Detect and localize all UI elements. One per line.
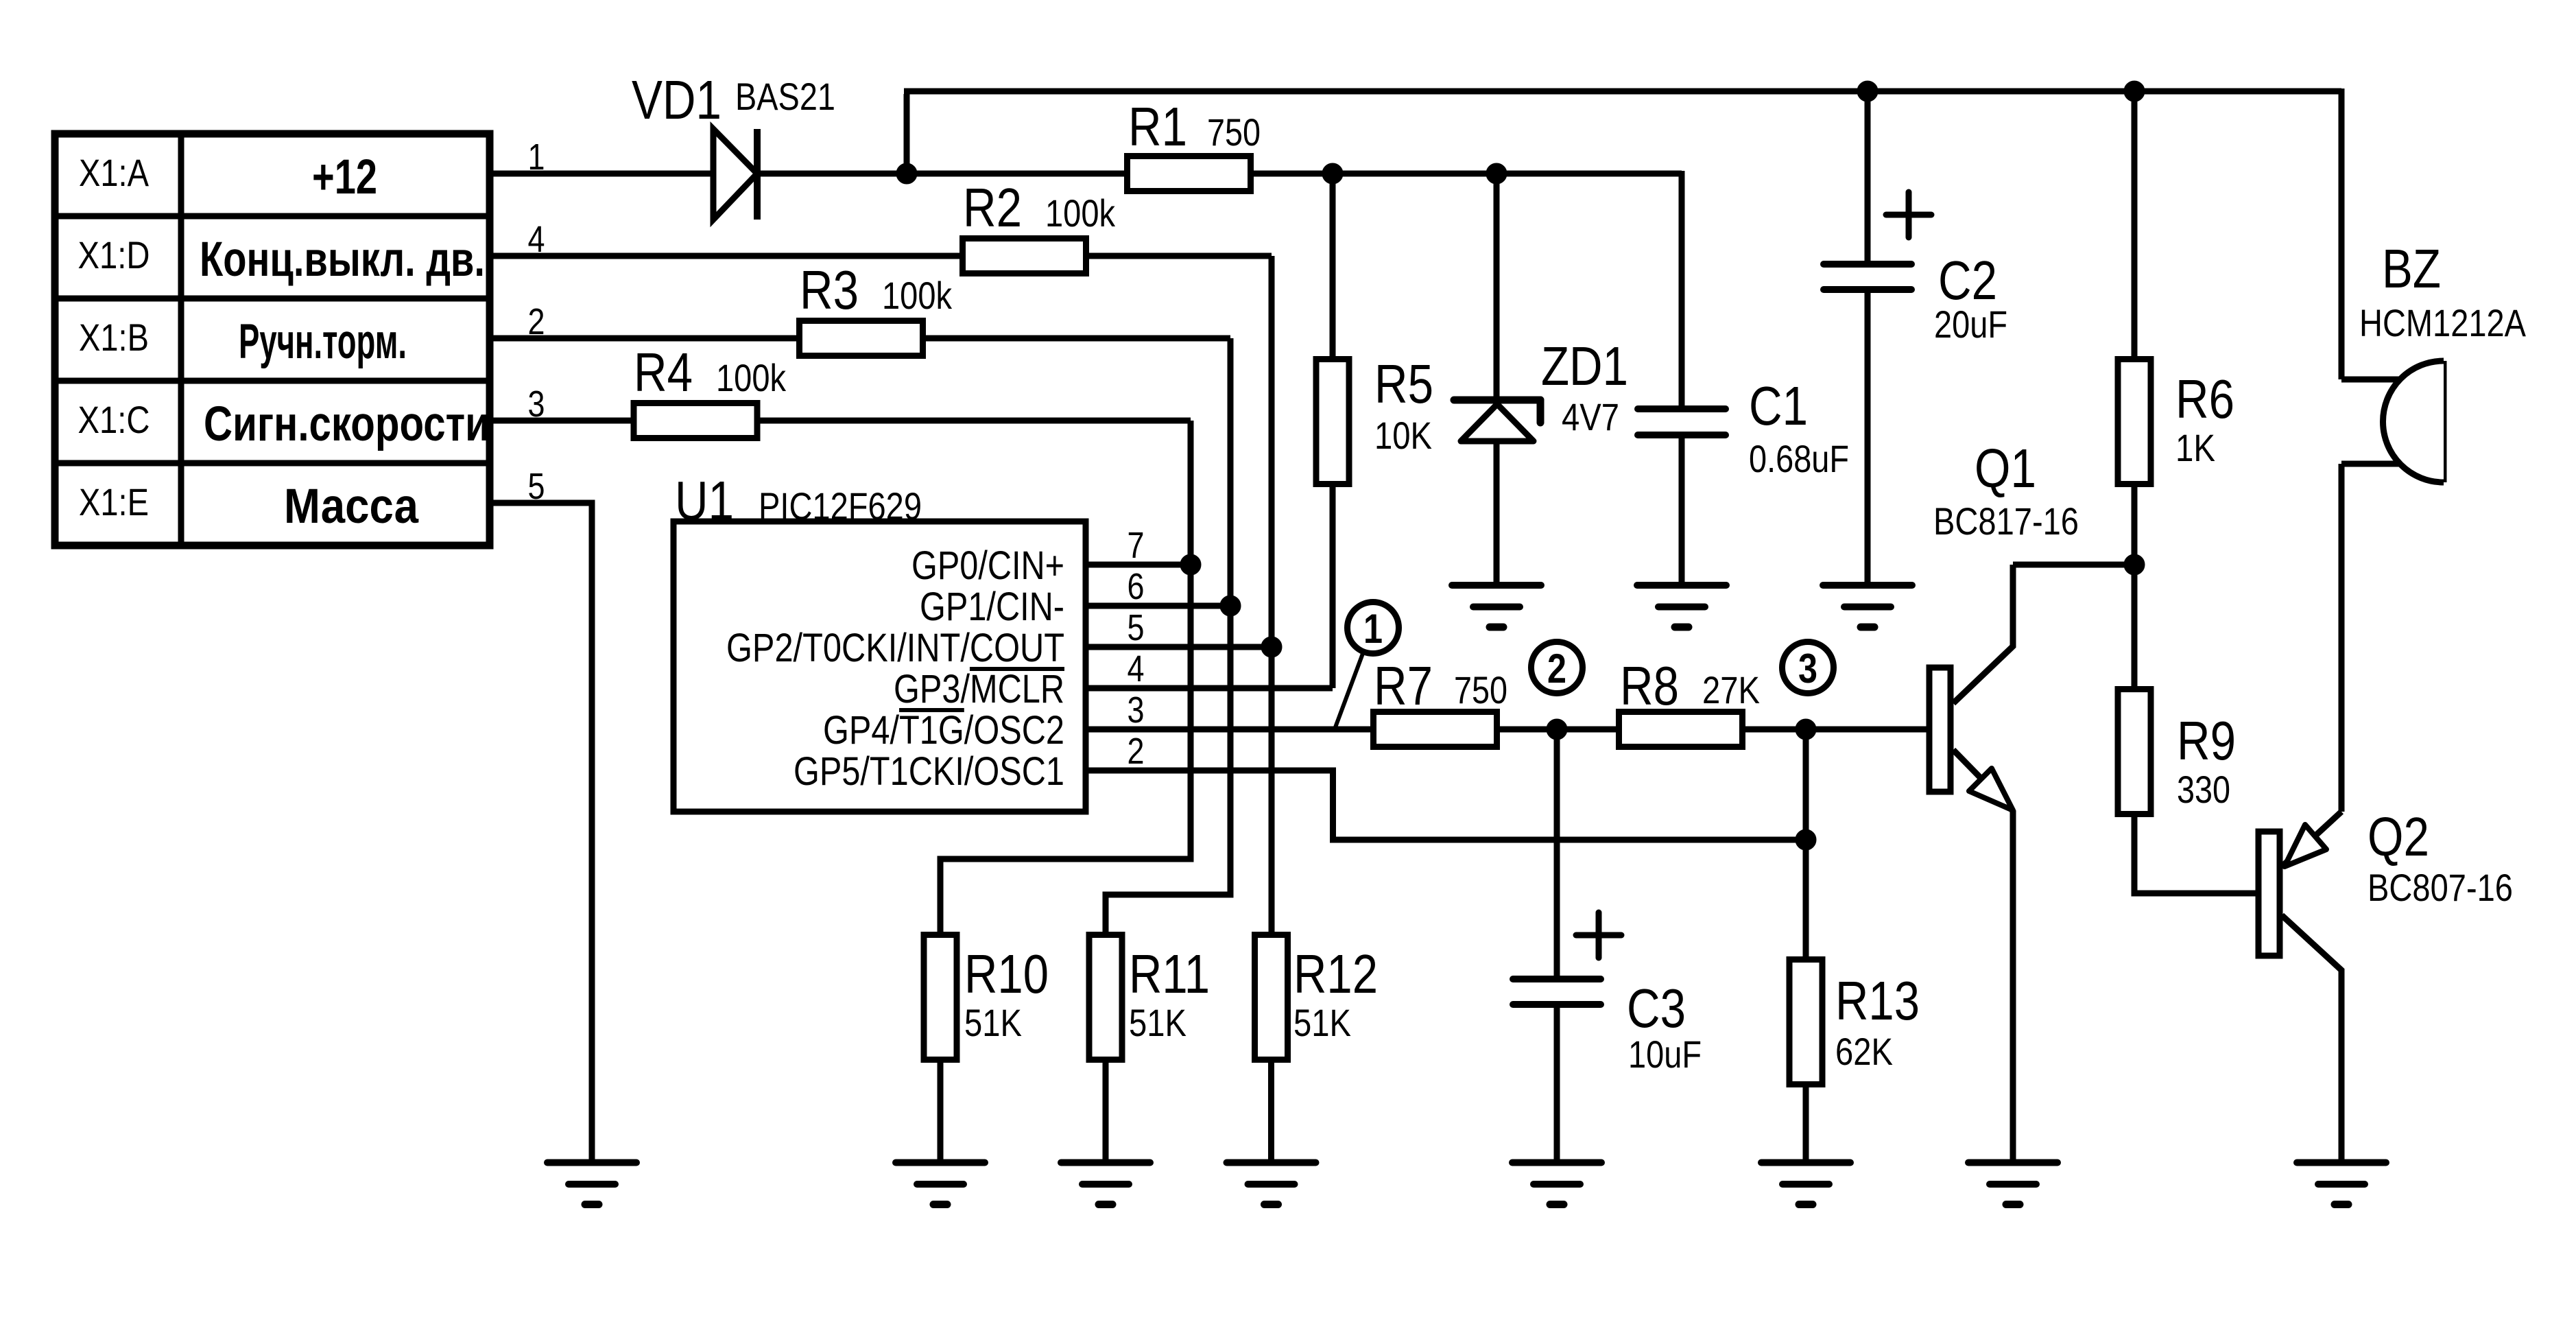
svg-text:62K: 62K [1835, 1030, 1893, 1073]
wire R11 bottom [1103, 1060, 1109, 1163]
wire R10 bottom [938, 1060, 944, 1163]
resistor R5 [1316, 360, 1349, 484]
svg-text:X1:C: X1:C [78, 398, 150, 441]
svg-text:R6: R6 [2175, 368, 2234, 429]
wire R6 top lead [2132, 91, 2138, 359]
wire top rail [904, 89, 2341, 95]
wire R5 bottom lead [1330, 484, 1336, 688]
svg-text:3: 3 [1798, 646, 1817, 692]
wire R5 top lead [1330, 174, 1336, 359]
svg-text:10uF: 10uF [1628, 1033, 1702, 1076]
svg-text:R13: R13 [1835, 970, 1920, 1031]
svg-text:6: 6 [1128, 566, 1145, 607]
svg-text:51K: 51K [1293, 1001, 1351, 1044]
svg-text:R2: R2 [963, 177, 1022, 238]
wire net door vertical [1269, 256, 1275, 934]
capacitor C2 polarized [1824, 264, 1911, 290]
wire C2 top lead [1865, 91, 1871, 261]
svg-text:X1:A: X1:A [79, 151, 150, 194]
junction pin5 net [1261, 637, 1282, 657]
wire buzzer top lead [2341, 377, 2400, 383]
ic U1 box [673, 521, 1086, 812]
wire C3 bottom lead [1554, 1007, 1560, 1163]
svg-text:7: 7 [1128, 525, 1145, 566]
resistor R8 [1619, 712, 1743, 747]
svg-text:2: 2 [1547, 646, 1566, 692]
ground R11 [1061, 1163, 1150, 1205]
arrow Q1 emitter [1969, 768, 2013, 810]
wire net speed vertical [940, 421, 1191, 934]
junction R5 top [1322, 163, 1343, 184]
svg-text:27K: 27K [1702, 668, 1760, 711]
svg-text:X1:E: X1:E [79, 480, 149, 523]
wire pin3 GP4 to R7 [1086, 727, 1373, 733]
resistor R4 [634, 403, 757, 438]
plus sign C3 [1576, 912, 1621, 958]
wire Q1 collector to R6 node [2013, 562, 2134, 568]
buzzer BZ [2383, 361, 2444, 482]
wire buzzer top vertical [2339, 89, 2345, 379]
junction node 2 [1547, 719, 1567, 740]
svg-text:R3: R3 [800, 259, 859, 320]
junction VD1 output [896, 163, 917, 184]
arrow Q2 emitter [2285, 825, 2326, 867]
wire pin7 stub [1086, 562, 1191, 568]
svg-text:Сигн.скорости: Сигн.скорости [204, 397, 490, 451]
wire Q1 collector [1953, 565, 2013, 703]
svg-text:51K: 51K [964, 1001, 1022, 1044]
svg-text:2: 2 [1128, 731, 1145, 772]
wire pin6 stub [1086, 603, 1230, 609]
resistor R12 [1255, 935, 1288, 1060]
wire R8 to Q1 base [1742, 727, 1927, 733]
wire buzzer bottom lead [2341, 461, 2400, 467]
wire pin4 to R2 [490, 253, 963, 259]
wire Q1 emitter diag [1953, 750, 2013, 811]
svg-text:R4: R4 [634, 342, 693, 403]
transistor Q2 base bar [2258, 832, 2280, 956]
svg-text:BAS21: BAS21 [735, 75, 835, 118]
junction node 3 [1796, 719, 1816, 740]
svg-text:GP3/MCLR: GP3/MCLR [894, 667, 1064, 711]
wire pin2 GP5 [1086, 770, 1806, 840]
svg-text:Ручн.торм.: Ручн.торм. [239, 315, 407, 369]
svg-text:R10: R10 [964, 943, 1049, 1004]
svg-text:R12: R12 [1293, 943, 1378, 1004]
svg-text:GP2/T0CKI/INT/COUT: GP2/T0CKI/INT/COUT [726, 626, 1064, 670]
svg-text:Q2: Q2 [2368, 806, 2429, 867]
svg-text:4: 4 [1128, 648, 1145, 690]
wire pin5 Масса [490, 503, 592, 1163]
svg-text:R1: R1 [1128, 96, 1187, 157]
capacitor C1 [1638, 409, 1726, 435]
wire Q2 collector [2282, 915, 2341, 1163]
svg-text:C2: C2 [1938, 250, 1997, 311]
svg-text:GP0/CIN+: GP0/CIN+ [911, 543, 1064, 588]
svg-text:51K: 51K [1129, 1001, 1186, 1044]
wire C2 bottom lead [1865, 292, 1871, 585]
wire R7 to R8 [1500, 727, 1619, 733]
resistor R9 [2118, 690, 2151, 814]
svg-text:GP1/CIN-: GP1/CIN- [920, 585, 1064, 629]
svg-text:BC817-16: BC817-16 [1933, 499, 2079, 543]
ground Q2 collector [2297, 1163, 2386, 1205]
wire R9 top lead [2132, 565, 2138, 689]
resistor R7 [1374, 712, 1497, 747]
junction pin6 net [1220, 596, 1241, 616]
svg-text:1K: 1K [2175, 426, 2215, 469]
svg-text:0.68uF: 0.68uF [1749, 437, 1849, 480]
svg-text:R7: R7 [1374, 655, 1433, 716]
svg-text:Масса: Масса [284, 480, 418, 534]
resistor R10 [924, 935, 957, 1060]
ground Масса [547, 1163, 636, 1205]
wire R9 bottom to Q2 base [2134, 814, 2256, 893]
wire net brake vertical [1106, 338, 1230, 934]
svg-text:100k: 100k [716, 356, 787, 399]
junction pin7 net [1180, 554, 1201, 575]
transistor Q1 base bar [1929, 668, 1951, 792]
overline MCLR [970, 667, 1064, 671]
ground C2 [1823, 585, 1912, 627]
ground Q1 emitter [1968, 1163, 2058, 1205]
svg-text:HCM1212A: HCM1212A [2359, 301, 2527, 344]
svg-text:4V7: 4V7 [1562, 395, 1619, 438]
resistor R13 [1789, 960, 1822, 1085]
ground C3 [1512, 1163, 1601, 1205]
junction R6 top [2124, 81, 2145, 102]
svg-text:R8: R8 [1620, 655, 1679, 716]
wire up from VD1 junction [904, 94, 910, 174]
ground C1 [1637, 585, 1726, 627]
wire node3 down [1803, 729, 1809, 959]
svg-text:C3: C3 [1627, 978, 1686, 1039]
ground R13 [1761, 1163, 1850, 1205]
diode VD1 [713, 129, 757, 220]
svg-text:GP5/T1CKI/OSC1: GP5/T1CKI/OSC1 [794, 749, 1064, 794]
svg-text:GP4/T1G/OSC2: GP4/T1G/OSC2 [823, 708, 1064, 753]
wire Q1 emitter down [2010, 810, 2016, 1163]
node circle 2 [1531, 642, 1583, 694]
svg-text:R9: R9 [2177, 710, 2236, 771]
ground R10 [896, 1163, 985, 1205]
junction ZD1 top [1486, 163, 1507, 184]
resistor R3 [800, 321, 923, 356]
svg-text:+12: +12 [312, 150, 377, 204]
wire pin2 to R3 [490, 335, 800, 342]
wire node2 to C3 [1554, 729, 1560, 976]
ground R12 [1227, 1163, 1316, 1205]
wire C1 top lead [1679, 171, 1685, 406]
svg-text:Конц.выкл. дв.: Конц.выкл. дв. [200, 233, 485, 287]
resistor R1 [1128, 156, 1251, 191]
wire R13 bottom [1803, 1085, 1809, 1163]
plus sign C2 [1886, 192, 1931, 237]
svg-text:X1:D: X1:D [78, 233, 150, 276]
svg-text:C1: C1 [1749, 375, 1808, 436]
wire R12 bottom [1268, 1060, 1274, 1163]
wire Q2 emitter diag [2282, 812, 2341, 867]
junction GP5 feedback [1796, 829, 1816, 850]
ground ZD1 [1452, 585, 1541, 627]
resistor R6 [2118, 360, 2151, 484]
svg-text:5: 5 [1128, 607, 1145, 648]
svg-text:3: 3 [1128, 690, 1145, 731]
svg-text:VD1: VD1 [632, 69, 721, 130]
svg-text:ZD1: ZD1 [1541, 335, 1628, 397]
zener ZD1 [1454, 400, 1540, 441]
connector X1 table [55, 134, 490, 545]
wire pin5 stub [1086, 644, 1272, 650]
svg-text:X1:B: X1:B [79, 316, 149, 359]
svg-text:20uF: 20uF [1934, 303, 2007, 346]
wire R4 to pin7 net [757, 418, 1191, 424]
svg-text:PIC12F629: PIC12F629 [759, 484, 922, 528]
resistor R2 [963, 239, 1086, 274]
svg-text:U1: U1 [675, 470, 734, 531]
svg-text:Q1: Q1 [1975, 438, 2036, 499]
wire R2 to pin5 net [1086, 253, 1272, 259]
capacitor C3 polarized [1513, 979, 1601, 1004]
svg-text:100k: 100k [882, 274, 953, 317]
svg-text:100k: 100k [1045, 191, 1116, 235]
wire buzzer to Q2 emitter [2339, 464, 2345, 812]
junction R6 R9 node [2124, 554, 2145, 575]
wire pin3 to R4 [490, 418, 634, 424]
resistor R11 [1089, 935, 1122, 1060]
svg-text:R5: R5 [1374, 353, 1433, 414]
svg-text:750: 750 [1207, 110, 1261, 154]
wire GP3 MCLR pin4 [1086, 685, 1333, 692]
junction C2 top [1857, 81, 1878, 102]
wire VD1 cathode to R1 [757, 171, 1128, 177]
wire ZD1 bottom lead [1494, 440, 1500, 585]
wire R6 bottom lead [2132, 484, 2138, 565]
wire ZD1 top lead [1494, 174, 1500, 400]
wire pin1 +12 to VD1 [490, 171, 713, 177]
svg-text:1: 1 [1363, 606, 1383, 652]
node circle 1 [1335, 602, 1399, 728]
node circle 3 [1782, 642, 1834, 694]
svg-text:BC807-16: BC807-16 [2368, 866, 2513, 909]
svg-text:R11: R11 [1129, 943, 1210, 1004]
svg-text:750: 750 [1454, 668, 1507, 711]
overline T1G [899, 708, 964, 712]
wire C1 bottom lead [1679, 438, 1685, 585]
svg-text:330: 330 [2177, 768, 2230, 811]
svg-text:BZ: BZ [2382, 238, 2441, 299]
wire R3 to pin6 net [922, 335, 1230, 342]
wire R1 to C1 corner [1250, 171, 1682, 177]
svg-text:10K: 10K [1374, 414, 1432, 457]
